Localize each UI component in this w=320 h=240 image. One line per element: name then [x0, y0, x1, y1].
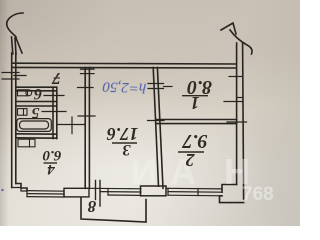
bathtub	[17, 119, 52, 132]
wall A partition ticks (top)	[81, 69, 95, 73]
wall 3|2 junction tick	[148, 120, 165, 122]
right wall window tick 1	[229, 76, 243, 78]
room 3 label 17.6	[106, 128, 139, 140]
toilet top wall junction tick at wall A	[78, 87, 94, 89]
room 4 label 6.0	[42, 150, 62, 160]
wall A corridor|room3 (double line)	[84, 68, 86, 189]
entry door tick on top-left	[14, 75, 26, 77]
bath sink fixture	[18, 109, 28, 116]
balcony 8 outline	[81, 198, 146, 222]
room 2 window (bottom wall)	[166, 188, 222, 196]
wall-break squiggle top-left	[7, 13, 23, 54]
right wall window tick 3	[227, 121, 247, 123]
room 7 label (crossed seven)	[51, 72, 62, 84]
room 2 label 9.7	[182, 134, 208, 148]
bottom wall pier block under wall 3|2	[141, 186, 167, 196]
room 5 label	[30, 107, 41, 118]
kitchen window (bottom wall)	[27, 191, 64, 197]
wall 3|1 partition ticks	[148, 84, 172, 89]
stray blue ink dot on left edge	[1, 189, 3, 191]
bath door pointer tick	[42, 111, 66, 113]
bath block right wall (double)	[52, 87, 54, 138]
bottom-right stepped corner	[222, 185, 237, 193]
room 6 label	[32, 88, 44, 98]
wall A tick (mid, kitchen door)	[78, 115, 95, 117]
wall-break squiggle top-right	[221, 23, 252, 54]
room 8 label balcony	[87, 200, 97, 212]
outer wall: left (double line)	[11, 53, 13, 188]
kitchen stove fixture	[18, 139, 35, 147]
bottom wall: left stepped corner	[16, 184, 27, 191]
kitchen top partition with door tick	[57, 117, 84, 134]
outer wall: top (double line)	[13, 62, 236, 65]
room 3 balcony window (bottom wall)	[89, 188, 141, 195]
outer wall: right (double line)	[236, 43, 238, 185]
watermark letters	[131, 151, 157, 193]
right wall window tick 2	[224, 101, 243, 103]
toilet door pointer tick	[44, 95, 64, 97]
bottom wall pier between kitchen window and balcony door	[64, 188, 89, 197]
toilet room 6 top wall (double)	[16, 86, 56, 88]
left-wall break ticks	[2, 73, 19, 80]
wall room3|rooms1-2 (double line)	[153, 68, 158, 187]
right wall window cap	[237, 97, 243, 99]
balcony door ticks	[96, 181, 101, 207]
toilet|bath divider (double)	[16, 101, 57, 103]
divider room1|room2 (double line)	[156, 119, 237, 121]
bath bottom wall (double)	[16, 133, 57, 135]
blue note h=2.50	[97, 75, 153, 96]
toilet cistern fixture	[18, 90, 32, 96]
room 1 label 8.0	[184, 80, 215, 94]
